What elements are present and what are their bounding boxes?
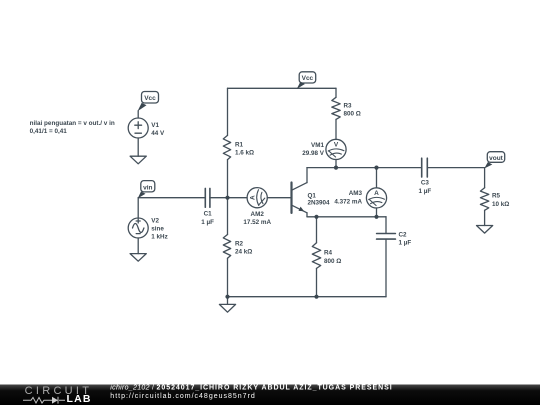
svg-text:AM2: AM2 <box>251 211 265 218</box>
svg-text:VM1: VM1 <box>311 142 324 149</box>
svg-text:vout: vout <box>489 155 504 162</box>
svg-text:ichiro_2102 / 20524017_ICHIRO: ichiro_2102 / 20524017_ICHIRO RIZKY ABDU… <box>110 385 392 392</box>
wire AM3 bottom <box>376 208 378 217</box>
voltage source V2 <box>128 218 148 238</box>
ground below V1 <box>130 156 146 164</box>
svg-text:R4: R4 <box>324 250 333 257</box>
ground below R5 <box>477 226 493 234</box>
capacitor C3 <box>422 158 428 177</box>
svg-text:Vcc: Vcc <box>144 95 156 102</box>
svg-text:17.52 mA: 17.52 mA <box>243 219 271 226</box>
svg-text:C3: C3 <box>421 179 430 186</box>
footer bar <box>0 385 540 405</box>
svg-text:44 V: 44 V <box>151 130 165 137</box>
wire collector rail <box>307 167 422 169</box>
wire V1 bottom <box>137 138 139 156</box>
vin flag <box>138 181 155 199</box>
wire V2 bottom <box>137 238 139 254</box>
resistor R2 <box>223 198 230 297</box>
svg-text:V1: V1 <box>151 122 159 129</box>
svg-text:C1: C1 <box>204 210 213 217</box>
svg-text:800 Ω: 800 Ω <box>324 258 341 265</box>
svg-text:LAB: LAB <box>67 393 92 405</box>
wire vin to V2 <box>137 198 139 218</box>
node R4 top <box>314 215 318 219</box>
svg-text:1 µF: 1 µF <box>419 188 432 195</box>
svg-text:800 Ω: 800 Ω <box>344 111 361 118</box>
wire top rail <box>228 87 337 89</box>
node R4 bottom <box>314 295 318 299</box>
resistor R4 <box>312 217 320 297</box>
node VM1/collector rail <box>334 166 338 170</box>
svg-text:1.6 kΩ: 1.6 kΩ <box>235 150 254 157</box>
svg-text:1 µF: 1 µF <box>201 219 214 226</box>
ammeter AM3 <box>366 188 386 208</box>
wire bottom rail <box>228 296 387 298</box>
wire V1 top <box>137 111 139 118</box>
svg-text:4.372 mA: 4.372 mA <box>334 198 362 205</box>
svg-text:V2: V2 <box>151 218 159 225</box>
svg-text:A: A <box>249 195 256 200</box>
vout flag <box>484 152 504 169</box>
wire AM3 top <box>376 168 378 188</box>
svg-text:nilai penguatan = v out./ v in: nilai penguatan = v out./ v in <box>30 120 115 127</box>
svg-text:1 µF: 1 µF <box>399 240 412 247</box>
wire signal row vin to C1 <box>138 197 205 199</box>
capacitor C1 <box>205 188 210 207</box>
svg-text:C2: C2 <box>399 232 408 239</box>
capacitor C2 <box>377 217 396 297</box>
voltmeter VM1 <box>326 139 346 159</box>
svg-text:29.98 V: 29.98 V <box>302 150 325 157</box>
node AM3 top <box>374 166 378 170</box>
Vcc flag at V1 <box>138 92 159 112</box>
ammeter AM2 <box>247 188 267 208</box>
ground below V2 <box>130 254 146 262</box>
svg-text:0,41/1 = 0,41: 0,41/1 = 0,41 <box>30 128 68 135</box>
svg-text:http://circuitlab.com/c48geus8: http://circuitlab.com/c48geus85n7rd <box>110 393 256 400</box>
junction dots <box>225 166 378 299</box>
node AM3 bottom <box>374 215 378 219</box>
wire C1 to AM2 <box>210 197 247 199</box>
svg-text:vin: vin <box>143 184 152 191</box>
resistor R3 <box>332 88 340 139</box>
node C1/R1/R2 <box>225 196 229 200</box>
svg-text:24 kΩ: 24 kΩ <box>235 249 252 256</box>
svg-text:2N3904: 2N3904 <box>308 200 331 207</box>
svg-text:AM3: AM3 <box>349 190 363 197</box>
svg-text:R1: R1 <box>235 142 244 149</box>
logo circuit glyph (wire, resistor, diode) <box>23 397 65 404</box>
resistor R1 <box>223 88 230 197</box>
svg-text:1 kHz: 1 kHz <box>151 234 167 241</box>
svg-text:sine: sine <box>151 226 164 233</box>
svg-text:Q1: Q1 <box>308 192 317 199</box>
svg-text:10 kΩ: 10 kΩ <box>492 201 509 208</box>
wire AM2 to Q1 base <box>267 197 291 199</box>
svg-text:R5: R5 <box>492 193 501 200</box>
ground at bottom rail <box>219 297 235 313</box>
svg-text:Vcc: Vcc <box>302 75 314 82</box>
voltage source V1 <box>128 118 148 138</box>
svg-text:R3: R3 <box>344 102 353 109</box>
resistor R5 <box>480 168 488 226</box>
wire collector rail right of C3 <box>427 167 484 169</box>
svg-text:R2: R2 <box>235 240 244 247</box>
transistor Q1 <box>292 168 308 217</box>
svg-text:A: A <box>374 190 379 197</box>
node ground bottom rail <box>225 295 229 299</box>
Vcc flag at top rail <box>297 72 316 89</box>
svg-text:V: V <box>334 141 339 148</box>
wire VM1 to rail <box>335 160 337 168</box>
wire emitter rail <box>307 216 386 218</box>
